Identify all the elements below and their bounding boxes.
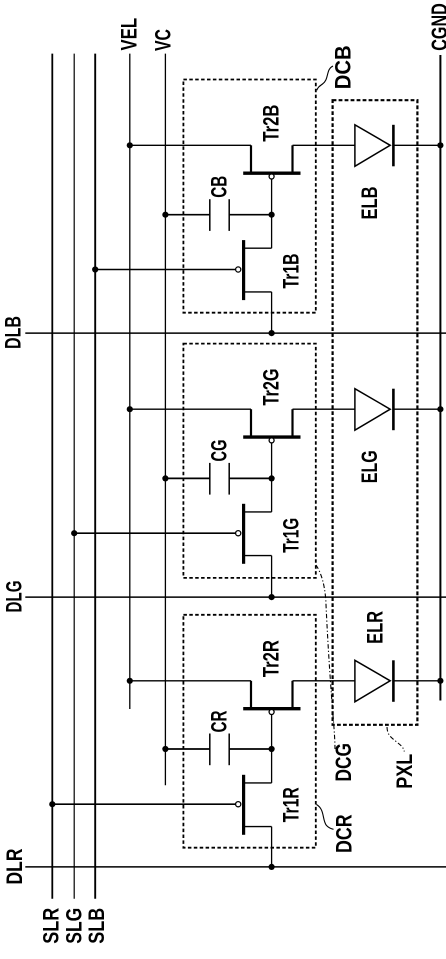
svg-text:CGND: CGND xyxy=(428,3,446,51)
wire CGND line xyxy=(439,55,441,701)
transistor Tr2B right stub xyxy=(291,145,293,171)
wire CG to gate node xyxy=(229,477,271,479)
junction VEL-Tr2G xyxy=(127,406,133,412)
transistor Tr2B left stub xyxy=(250,145,252,171)
junction SLR gate xyxy=(49,801,55,807)
dashed box DCG xyxy=(183,344,315,578)
svg-text:DLG: DLG xyxy=(2,581,27,613)
transistor Tr2B gate circle xyxy=(269,174,274,179)
svg-text:CG: CG xyxy=(207,440,232,462)
junction DLR xyxy=(269,864,275,870)
svg-text:DLB: DLB xyxy=(1,316,26,349)
transistor Tr1R channel bar xyxy=(242,775,245,835)
transistor Tr2R gate circle xyxy=(269,710,274,715)
junction VC-CB xyxy=(162,212,168,218)
wire VEL power line xyxy=(129,54,131,709)
wire ELB to CGND xyxy=(393,144,440,146)
wire DLR data line xyxy=(25,866,446,868)
wire SLG select line xyxy=(73,54,75,899)
transistor Tr2R left stub xyxy=(250,681,252,707)
junction SLB gate xyxy=(92,266,98,272)
wire Tr2G gate to node xyxy=(271,443,273,479)
wire gate node to Tr1G xyxy=(271,478,273,512)
leader DCG xyxy=(316,565,335,749)
transistor Tr1G gate circle xyxy=(236,531,241,536)
wire SLR select line xyxy=(51,54,53,899)
svg-text:DCB: DCB xyxy=(331,45,356,89)
svg-text:Tr2G: Tr2G xyxy=(259,368,284,405)
transistor Tr1B lower stub xyxy=(244,291,272,293)
junction VEL-Tr2B xyxy=(127,142,133,148)
leader DCR xyxy=(317,805,334,830)
wire VEL to Tr2G xyxy=(130,408,251,410)
transistor Tr2R right stub xyxy=(291,681,293,707)
dashed box DCR xyxy=(183,615,315,848)
svg-text:SLG: SLG xyxy=(62,908,87,944)
wire Tr1B to DLB xyxy=(271,292,273,333)
junction CGND G xyxy=(437,406,443,412)
svg-text:VEL: VEL xyxy=(117,18,142,51)
svg-text:DCR: DCR xyxy=(332,814,357,853)
diode ELG cathode bar xyxy=(392,389,395,431)
transistor Tr1B upper stub xyxy=(244,247,272,249)
transistor Tr1G lower stub xyxy=(244,555,272,557)
wire ELG to CGND xyxy=(393,408,440,410)
transistor Tr1G channel bar xyxy=(242,504,245,564)
wire CB to gate node xyxy=(229,214,271,216)
junction DLB xyxy=(269,330,275,336)
svg-text:Tr1G: Tr1G xyxy=(279,518,304,553)
capacitor CR right plate xyxy=(228,734,230,766)
capacitor CB left plate xyxy=(209,199,211,231)
junction DLG xyxy=(269,594,275,600)
svg-text:Tr2R: Tr2R xyxy=(259,640,284,677)
wire VC to CG xyxy=(165,477,209,479)
transistor Tr1B channel bar xyxy=(242,240,245,300)
svg-text:PXL: PXL xyxy=(393,754,418,789)
transistor Tr2G right stub xyxy=(291,409,293,435)
wire DLG data line xyxy=(25,596,446,598)
capacitor CG left plate xyxy=(209,463,211,495)
transistor Tr2G left stub xyxy=(250,409,252,435)
wire VC to CB xyxy=(165,214,209,216)
diode ELR cathode bar xyxy=(392,660,395,702)
transistor Tr1G upper stub xyxy=(244,511,272,513)
capacitor CB right plate xyxy=(228,199,230,231)
diode ELG triangle xyxy=(355,389,390,431)
wire VEL to Tr2B xyxy=(130,144,251,146)
junction VEL-Tr2R xyxy=(127,678,133,684)
junction VC-CG xyxy=(162,475,168,481)
svg-text:VC: VC xyxy=(151,29,176,51)
wire Tr2R gate to node xyxy=(271,715,273,750)
transistor Tr2G channel bar xyxy=(243,435,300,438)
junction gate node R xyxy=(269,746,275,752)
leader PXL xyxy=(387,727,404,752)
svg-text:CR: CR xyxy=(207,710,232,732)
wire SLB to Tr1B gate xyxy=(95,269,236,271)
svg-text:Tr2B: Tr2B xyxy=(259,105,284,142)
transistor Tr2R channel bar xyxy=(243,707,300,710)
capacitor CG right plate xyxy=(228,463,230,495)
svg-text:ELR: ELR xyxy=(363,611,388,644)
transistor Tr2G gate circle xyxy=(269,438,274,443)
wire Tr2B gate to node xyxy=(271,179,273,215)
svg-text:SLR: SLR xyxy=(39,908,64,944)
wire Tr2B to ELB xyxy=(293,144,355,146)
leader DCB xyxy=(317,66,333,90)
transistor Tr1B gate circle xyxy=(236,267,241,272)
svg-text:Tr1R: Tr1R xyxy=(279,787,304,822)
junction gate node B xyxy=(269,212,275,218)
wire DLB data line xyxy=(25,332,446,334)
diode ELR triangle xyxy=(355,660,390,702)
diode ELB triangle xyxy=(355,125,390,167)
junction VC-CR xyxy=(162,746,168,752)
wire SLR to Tr1R gate xyxy=(52,803,236,805)
dashed box PXL xyxy=(333,100,418,725)
junction SLG gate xyxy=(71,530,77,536)
wire SLG to Tr1G gate xyxy=(74,532,236,534)
junction CGND R xyxy=(437,678,443,684)
svg-text:ELG: ELG xyxy=(358,450,383,483)
transistor Tr1R lower stub xyxy=(244,826,272,828)
transistor Tr1R gate circle xyxy=(236,802,241,807)
wire Tr1R to DLR xyxy=(271,827,273,867)
wire Tr2G to ELG xyxy=(293,408,355,410)
wire gate node to Tr1B xyxy=(271,215,273,249)
junction gate node G xyxy=(269,475,275,481)
wire Tr2R to ELR xyxy=(293,680,355,682)
wire Tr1G to DLG xyxy=(271,556,273,598)
svg-text:CB: CB xyxy=(207,176,232,198)
svg-text:Tr1B: Tr1B xyxy=(279,254,304,289)
wire gate node to Tr1R xyxy=(271,749,273,783)
svg-text:ELB: ELB xyxy=(358,187,383,220)
capacitor CR left plate xyxy=(209,734,211,766)
transistor Tr2B channel bar xyxy=(243,171,300,174)
svg-text:DCG: DCG xyxy=(332,743,357,782)
junction CGND B xyxy=(437,142,443,148)
wire VC to CR xyxy=(165,748,209,750)
dashed box DCB xyxy=(183,80,315,313)
transistor Tr1R upper stub xyxy=(244,782,272,784)
svg-text:DLR: DLR xyxy=(3,848,28,884)
wire CR to gate node xyxy=(229,748,271,750)
diode ELB cathode bar xyxy=(392,125,395,167)
wire VEL to Tr2R xyxy=(130,680,251,682)
wire VC line xyxy=(164,54,166,786)
svg-text:SLB: SLB xyxy=(85,908,110,944)
wire ELR to CGND xyxy=(393,680,440,682)
wire SLB select line xyxy=(94,54,96,899)
